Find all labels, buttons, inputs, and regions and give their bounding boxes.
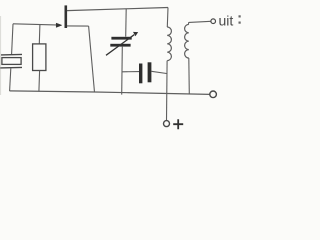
left edge scan smudge [0, 16, 2, 95]
wire L1 bottom drop to plus terminal [166, 61, 169, 121]
wire emitter lead [67, 25, 89, 27]
label colon [239, 15, 241, 17]
wire collector / top rail [67, 8, 168, 11]
crystal X1 bottom plate [0, 66, 22, 69]
svg-text:uit: uit [219, 12, 234, 28]
wire crystal top drop [12, 24, 13, 54]
wire top rail corner drop to L1 [166, 8, 169, 28]
terminal out circle bottom right [210, 91, 217, 98]
plus sign [173, 119, 183, 129]
wire resistor bottom drop [38, 71, 41, 92]
wire varcap bottom drop [121, 47, 124, 95]
terminal plus circle [164, 121, 170, 127]
wire capacitor branch left [122, 71, 139, 73]
wire base lead from crystal node to transistor [13, 24, 60, 25]
wire L2 bottom drop [188, 58, 191, 94]
wire varcap top drop [125, 9, 128, 37]
wire crystal bottom drop [10, 68, 11, 91]
variable capacitor C1 top plate [111, 37, 131, 40]
wire uit lead [189, 21, 211, 24]
crystal X1 top plate [1, 53, 22, 56]
wire bottom rail [10, 91, 210, 95]
transistor Q1 base bar [65, 5, 68, 28]
wire emitter drop [89, 26, 95, 92]
terminal uit circle [211, 19, 216, 24]
capacitor C2 left plate [139, 64, 142, 84]
inductor L2 secondary coil [185, 24, 189, 58]
wire capacitor branch right [151, 71, 166, 73]
variable capacitor C1 arrow [106, 35, 134, 56]
transistor Q1 base arrowhead [56, 23, 62, 27]
capacitor C2 right plate [148, 62, 152, 82]
variable capacitor C1 bottom plate [110, 44, 130, 47]
crystal X1 body [2, 58, 21, 65]
resistor R1 [33, 44, 46, 71]
inductor L1 primary coil [167, 27, 171, 61]
wire resistor top drop [38, 25, 41, 45]
